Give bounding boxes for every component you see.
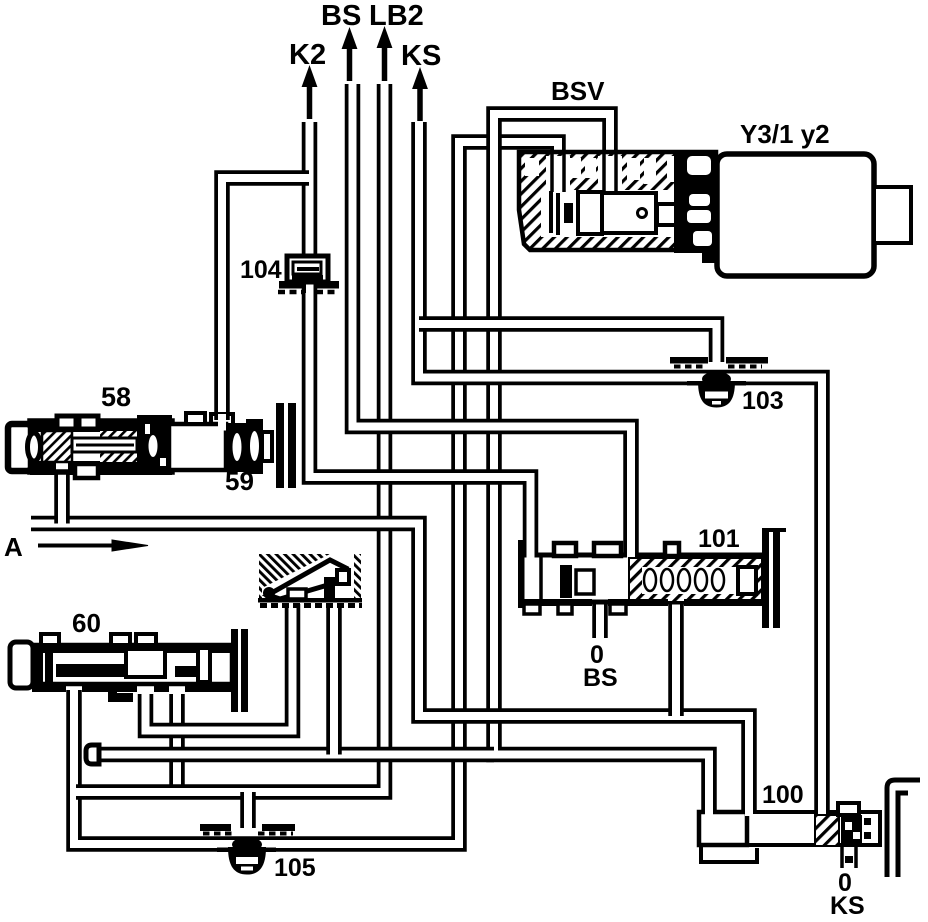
valve 60 left cap — [10, 642, 33, 688]
wire 105 feed: from LB2-west run down to valve 105 seat — [240, 792, 256, 828]
valve 58 rod — [72, 438, 137, 452]
valve 59 cylinder — [169, 424, 226, 470]
arrow LB2 up — [382, 45, 388, 81]
valve 58 left cap — [8, 424, 31, 471]
svg-text:KS: KS — [830, 892, 865, 920]
solenoid Y3/1 body — [717, 154, 874, 276]
arrow BS up — [347, 46, 353, 81]
valve 60 top tabs — [41, 634, 59, 645]
svg-text:100: 100 — [762, 781, 804, 809]
svg-text:59: 59 — [225, 466, 254, 496]
svg-text:103: 103 — [742, 387, 784, 415]
wire A-line: inlet A east along y523.5, down at x419, east along y716 (P1), down at x749 to valve 100 — [31, 524, 749, 813]
valve 60 drain elbow — [108, 684, 133, 702]
wire U-A loop: valve60 left leg down, east along bottom, up as pipe A to BSV left port — [74, 142, 558, 844]
wire valve58 legs into A-line — [54, 470, 70, 524]
svg-text:60: 60 — [72, 608, 101, 638]
cam roller — [324, 577, 335, 599]
valve 60 right wall — [231, 629, 238, 712]
wire H1: valve60 port down, east, up as C1 to cam — [146, 604, 293, 731]
wire C2: cam right pipe down into B run — [326, 604, 342, 755]
valve 60 o-ring bars — [35, 647, 43, 683]
wire BS run: from top arrow down, east at y426.5, down at x631 to valve 101 port — [353, 84, 632, 560]
valve 100 left cap — [699, 812, 747, 845]
BSV connector band to solenoid — [674, 152, 718, 253]
valve 100 hatched section — [815, 815, 839, 846]
valve 58 top tabs — [57, 416, 76, 429]
valve 101 wall bracket — [764, 530, 786, 548]
valve 59 spring wall — [276, 403, 284, 488]
valve 59 top tab — [186, 413, 205, 424]
valve 60 body — [32, 645, 232, 684]
svg-text:A: A — [4, 532, 23, 562]
valve 101 body — [522, 555, 762, 602]
valve 100 port openings — [745, 808, 753, 816]
wire T103 branch: from KS pipe east at y324, down at x716.5 to check valve 103 — [419, 324, 717, 362]
arrow KS up — [417, 86, 423, 121]
BSV bore — [541, 190, 677, 237]
cam lever housing hatch — [259, 554, 361, 600]
BSV valve housing — [519, 152, 716, 250]
BSV port slots — [546, 156, 570, 192]
svg-text:Y3/1 y2: Y3/1 y2 — [740, 119, 830, 149]
wire KS run: from top arrow down, east at y377.5 through check valve 103, down at x822 to valve 100 — [419, 122, 822, 812]
valve 104 body — [287, 256, 328, 282]
svg-text:58: 58 — [101, 382, 131, 412]
wire LB2 run: from top arrow down, west along y792 to valve60-left pipe — [76, 84, 385, 792]
valve 101 bottom tabs — [524, 604, 540, 614]
cap on PCAP west end — [86, 745, 99, 764]
cam base bar — [258, 598, 362, 603]
svg-text:KS: KS — [401, 40, 441, 72]
valve 100 top bump — [838, 803, 859, 815]
valve 60 bottom edge with port gaps — [32, 684, 66, 692]
wire K2 run: from top arrow down, east at y477, down at x530.5 to valve 101 left port — [310, 122, 531, 560]
valve 100 KS drain port — [842, 847, 856, 868]
valve 100 right bits — [864, 818, 871, 825]
valve 101 spool bits — [560, 565, 572, 598]
valve 101 top tabs — [554, 543, 576, 556]
valve 58 piston hatched — [42, 431, 72, 462]
arrow K2 up — [307, 84, 313, 119]
svg-text:104: 104 — [240, 256, 282, 284]
svg-text:101: 101 — [698, 525, 740, 553]
svg-text:BS: BS — [583, 664, 618, 692]
check valve 103 cup — [698, 381, 735, 408]
wire T59: valve59 top port up, east into K2 pipe — [222, 178, 309, 420]
BSV spring washers — [551, 191, 558, 235]
svg-text:105: 105 — [274, 854, 316, 882]
valve 58/59 transition block — [137, 415, 172, 475]
valve 101 port openings — [527, 549, 535, 561]
valve 100 left foot — [701, 845, 757, 862]
BSV spool — [564, 203, 573, 223]
check valve 105 ball — [232, 837, 262, 852]
valve 58 bottom tab — [75, 464, 98, 478]
valve 100 right wall with hook — [887, 780, 920, 877]
valve 59 end stub — [262, 432, 272, 461]
valve 100 body — [747, 812, 880, 845]
check valve 103 seat bar — [670, 357, 708, 364]
svg-text:BSV: BSV — [551, 76, 605, 106]
cam lever — [268, 560, 346, 599]
valve 101 bottom edge with port gaps — [522, 599, 592, 606]
solenoid Y3/1 connector — [874, 187, 911, 243]
check valve 103 ball — [702, 372, 731, 387]
check valve 105 seat bar — [200, 824, 231, 831]
arrow A right — [38, 544, 118, 548]
check valve 105 cup — [228, 847, 266, 875]
valve 60 spool band — [56, 664, 126, 677]
valve 58 o-ring — [28, 433, 41, 461]
valve 104 seat bar — [279, 281, 304, 289]
valve 58 body — [30, 421, 172, 472]
valve 59 o-ring section — [226, 423, 248, 472]
svg-text:BS: BS — [321, 0, 361, 32]
svg-text:LB2: LB2 — [369, 0, 424, 32]
svg-text:K2: K2 — [289, 39, 326, 71]
wire V177: valve60 mid port down to LB2-west run — [169, 694, 185, 796]
BSV port pipe lines — [552, 152, 616, 192]
wire B loop: BSV right port up, west, down, east to valve 100 left cap — [494, 114, 709, 814]
valve 101 hatched spring section — [629, 558, 762, 602]
wire T101d: valve101 bottom port down into P1 — [668, 598, 684, 716]
wire PCAP west branch: capped stub east into B corner — [98, 747, 494, 763]
wire BS drain stub of valve 101 — [592, 598, 608, 638]
valve 101 spring wall — [762, 528, 769, 628]
